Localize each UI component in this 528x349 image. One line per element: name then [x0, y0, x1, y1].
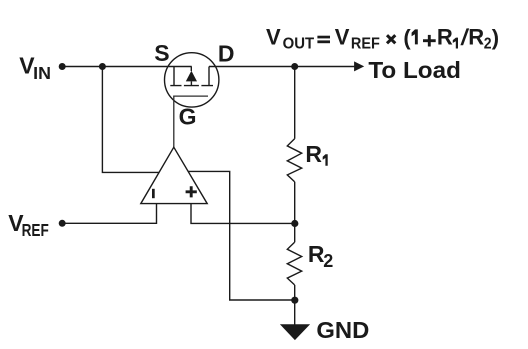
svg-text:): ) — [492, 25, 499, 50]
label formula VOUT = VREF x (1+R1/R2) — [266, 24, 499, 52]
svg-text:S: S — [154, 40, 169, 66]
svg-text:REF: REF — [351, 36, 380, 53]
node junction A dot (VIN branch) — [99, 63, 106, 70]
resistor R2 zigzag — [287, 242, 301, 285]
resistor R1 zigzag — [287, 139, 301, 182]
node ground junction dot — [291, 297, 298, 304]
wire VOUT node down to R1 — [294, 67, 296, 139]
wire gate line down to op-amp output apex — [174, 96, 208, 147]
svg-text:(: ( — [403, 25, 411, 50]
svg-text:2: 2 — [323, 251, 333, 271]
arrowhead to load — [354, 61, 364, 71]
ground symbol — [280, 324, 310, 340]
label R1 — [305, 141, 327, 167]
wire VREF to inverting input — [62, 204, 156, 224]
svg-text:V: V — [266, 24, 281, 49]
label R2 — [308, 241, 333, 271]
wire ground junction to ground symbol — [294, 300, 296, 325]
node VOUT junction dot — [291, 63, 298, 70]
wire MOSFET drain to output node and load — [209, 66, 354, 68]
svg-text:R: R — [468, 24, 484, 49]
wire R1 to feedback junction — [294, 182, 296, 224]
svg-text:OUT: OUT — [283, 36, 315, 53]
wire junction A down to op-amp left side — [102, 67, 159, 173]
svg-text:2: 2 — [484, 36, 492, 53]
svg-text:D: D — [218, 40, 235, 66]
op-amp U1 triangle — [141, 147, 207, 203]
wire feedback junction down to R2 — [294, 224, 296, 243]
node VREF terminal dot — [59, 220, 66, 227]
svg-text:To Load: To Load — [368, 57, 461, 83]
label VREF — [8, 210, 49, 240]
wire op-amp right side to ground junction — [188, 171, 295, 300]
svg-text:GND: GND — [316, 317, 369, 343]
svg-text:R: R — [437, 24, 453, 49]
op-amp inverting input marker — [152, 189, 155, 198]
node VIN terminal dot — [59, 63, 66, 70]
svg-text:G: G — [179, 104, 197, 130]
svg-text:IN: IN — [33, 63, 51, 83]
wire VIN to MOSFET source — [62, 66, 192, 68]
svg-text:V: V — [335, 24, 350, 49]
svg-text:R: R — [305, 141, 322, 167]
transistor Q1 P-channel MOSFET — [165, 53, 219, 107]
svg-text:REF: REF — [22, 220, 49, 240]
node feedback junction dot — [291, 220, 298, 227]
label VIN — [19, 52, 51, 83]
wire feedback junction to op-amp plus input — [191, 204, 295, 224]
wire R2 to ground junction — [294, 285, 296, 300]
op-amp non-inverting input marker — [186, 186, 197, 197]
